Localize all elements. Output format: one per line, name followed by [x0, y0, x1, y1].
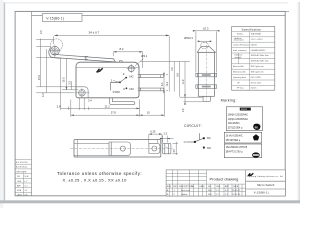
marking box 1 — [226, 107, 262, 131]
svg-text:25T125 5E4 µ: 25T125 5E4 µ — [228, 128, 243, 130]
svg-text:CIRCUIT:: CIRCUIT: — [184, 124, 202, 128]
svg-text:CHK: CHK — [216, 186, 221, 188]
top-left label box — [42, 14, 82, 22]
svg-text:16A 250VAC 25T105: 16A 250VAC 25T105 — [226, 146, 248, 149]
svg-text:KW12: KW12 — [241, 109, 248, 111]
svg-text:Mechanical life: Mechanical life — [233, 72, 246, 74]
paper bottom edge band — [0, 200, 300, 203]
actuator tick — [198, 133, 200, 139]
svg-text:2.8: 2.8 — [57, 105, 61, 109]
svg-text:Marking:: Marking: — [221, 99, 237, 103]
lever arm — [52, 54, 116, 62]
svg-text:CHK: CHK — [17, 181, 22, 183]
svg-text:16(4)A 125/250VAC: 16(4)A 125/250VAC — [228, 113, 249, 116]
svg-text:Specification: Specification — [242, 28, 262, 32]
svg-text:3.4: 3.4 — [88, 98, 92, 102]
svg-text:Insul. resistance: Insul. resistance — [233, 49, 247, 52]
svg-text:FP max: FP max — [237, 87, 244, 89]
svg-text:APP: APP — [17, 185, 22, 188]
svg-text:20.7±1.5mm: 20.7±1.5mm — [251, 82, 262, 84]
ext verticals bottom dims — [60, 59, 62, 107]
svg-text:APP: APP — [225, 185, 230, 188]
front terminal band 1 — [196, 73, 217, 77]
svg-text:Electrical life: Electrical life — [233, 65, 244, 68]
svg-text:Contact Resistance: Contact Resistance — [233, 43, 249, 46]
signoff grid verticals — [169, 170, 242, 196]
ext stub bottom tab — [184, 101, 204, 103]
center line bottom view — [70, 148, 173, 150]
svg-text:10(3)A 125/250VAC: 10(3)A 125/250VAC — [228, 118, 249, 121]
svg-text:RU: RU — [255, 126, 259, 129]
svg-text:Product drawing: Product drawing — [210, 176, 239, 181]
svg-text:ECN: ECN — [167, 186, 172, 188]
svg-text:5E4 Cycles min: 5E4 Cycles min — [251, 66, 264, 68]
right vertical dim bottom view — [173, 142, 179, 156]
marking box 3 — [224, 144, 261, 158]
svg-text:SCA: SCA — [17, 189, 22, 192]
svg-text:Ø5±0.3: Ø5±0.3 — [184, 36, 193, 40]
ext tick lever end — [112, 52, 114, 56]
marking box 2 — [224, 132, 261, 143]
paper top edge line — [4, 1, 288, 4]
terminal tab middle — [109, 142, 131, 156]
svg-text:1000V AC 50Hz 1min: 1000V AC 50Hz 1min — [251, 54, 269, 57]
svg-text:≥100MΩ 500VDC: ≥100MΩ 500VDC — [251, 49, 266, 52]
svg-text:1.3: 1.3 — [163, 132, 167, 136]
ext stub boss top — [62, 89, 78, 91]
svg-text:X. ±0.25 , X.X ±0.15 , XX ±0.1: X. ±0.25 , X.X ±0.15 , XX ±0.10 — [63, 178, 128, 183]
front bottom com tab — [203, 96, 210, 101]
roller fork — [49, 48, 61, 59]
svg-text:W.H: W.H — [208, 190, 212, 192]
NC terminal — [138, 75, 164, 78]
front lever plate — [197, 47, 215, 53]
svg-text:NC: NC — [207, 136, 211, 140]
dim 3.3 vertical — [70, 81, 72, 89]
svg-text:NO: NO — [207, 146, 211, 150]
svg-text:2.45~3.92N: 2.45~3.92N — [251, 77, 261, 79]
svg-text:21.2: 21.2 — [105, 105, 111, 109]
CQC oval logo — [252, 152, 260, 157]
title block outline — [166, 170, 285, 196]
ext line roller left — [53, 36, 55, 44]
com lead wire — [111, 82, 120, 90]
pivot contact — [194, 141, 196, 143]
dim 1.3 bottom view — [160, 136, 174, 143]
svg-text:REV DATE: REV DATE — [17, 170, 28, 173]
svg-text:strength: strength — [235, 56, 242, 59]
dim 6.3 terminal gap line — [163, 72, 165, 94]
dim line x179.5 — [179, 62, 181, 98]
svg-text:Micro Switch: Micro Switch — [257, 183, 275, 187]
svg-text:UNIT: UNIT — [17, 194, 22, 196]
svg-text:X.J: X.J — [225, 194, 228, 196]
ext stub lever plate — [141, 61, 191, 63]
svg-text:Update: Update — [181, 193, 188, 196]
blade to NC — [196, 138, 204, 141]
svg-text:12.07.26: 12.07.26 — [232, 194, 241, 196]
front body — [198, 52, 214, 96]
svg-text:V-15(B6-1): V-15(B6-1) — [46, 17, 64, 21]
svg-text:NC: NC — [129, 75, 133, 79]
svg-text:34 ± 0.7: 34 ± 0.7 — [89, 31, 100, 35]
body seam line — [76, 67, 139, 69]
dim line x174 — [173, 62, 175, 92]
left scan edge band — [0, 0, 3, 208]
svg-text:COM: COM — [113, 90, 121, 94]
bottom view inner bottom line — [74, 154, 109, 156]
NO terminal — [138, 88, 164, 91]
svg-text:-25°C~+125°C: -25°C~+125°C — [251, 39, 264, 41]
svg-text:First issue: First issue — [181, 189, 191, 192]
svg-text:1500V AC 50Hz 1min: 1500V AC 50Hz 1min — [251, 60, 269, 63]
COM bent terminal — [110, 98, 135, 105]
front roller (phantom) — [201, 42, 208, 48]
svg-text:25T105 5E4 µ: 25T105 5E4 µ — [226, 140, 241, 142]
svg-text:3.4: 3.4 — [42, 93, 45, 97]
dim roller width front — [198, 41, 212, 43]
bottom view inner top line — [74, 143, 109, 145]
row1 ticks — [60, 107, 62, 110]
svg-text:3.4mm: 3.4mm — [251, 87, 257, 89]
terminal tab right — [149, 143, 160, 153]
svg-text:Ø3.1: Ø3.1 — [141, 54, 148, 58]
paper left edge line — [4, 2, 6, 203]
svg-text:16A 250VAC: 16A 250VAC — [251, 33, 262, 36]
svg-text:1E6 Cycles min: 1E6 Cycles min — [251, 72, 264, 74]
svg-text:temperature: temperature — [234, 39, 244, 42]
dim 10.3 front — [193, 30, 220, 73]
svg-text:Zhejiang Jiulong electron co.,: Zhejiang Jiulong electron co., ltd — [247, 175, 284, 178]
dim 34 left arrow — [54, 35, 57, 37]
svg-text:C: C — [184, 140, 186, 144]
ext line hole side — [142, 52, 144, 68]
svg-text:27.8: 27.8 — [111, 111, 117, 115]
svg-text:DATE: DATE — [200, 185, 206, 188]
svg-text:X.J: X.J — [25, 186, 28, 188]
ext stub com bottom — [180, 96, 203, 98]
mounting hole top-right — [127, 64, 136, 73]
svg-text:4.3: 4.3 — [40, 30, 43, 34]
inner top line — [32, 15, 286, 17]
svg-text:15.9: 15.9 — [38, 75, 41, 80]
plunger — [120, 61, 123, 63]
dim 8.2 line — [113, 51, 143, 53]
svg-text:B 2 12.07.26: B 2 12.07.26 — [16, 162, 28, 164]
dim 34 right arrow — [166, 35, 169, 37]
bottom view outer case — [74, 140, 161, 157]
OP marker tick on lever — [84, 56, 87, 60]
svg-text:Operating force: Operating force — [233, 76, 246, 79]
svg-text:A 1 09.05.12: A 1 09.05.12 — [16, 166, 28, 169]
svg-text:Tolerance unless otherwise spe: Tolerance unless otherwise specify: — [57, 171, 142, 176]
svg-text:W.H: W.H — [25, 176, 29, 178]
svg-text:16 (4) A 250VAC: 16 (4) A 250VAC — [226, 134, 243, 137]
signoff row2 text — [167, 189, 241, 192]
left dim tower: overtravel dim — [39, 39, 41, 48]
revision column line — [31, 11, 33, 195]
company logo — [248, 173, 254, 177]
dim 10.3 vertical — [65, 59, 67, 90]
svg-text:W.H: W.H — [208, 194, 212, 196]
signoff grid horizontals — [166, 173, 246, 191]
svg-text:10.3: 10.3 — [61, 77, 65, 83]
movable blade to NC — [120, 78, 126, 83]
svg-text:16A 28VDC: 16A 28VDC — [228, 122, 240, 125]
hole boss outline — [76, 87, 88, 98]
UL recognized logo — [253, 124, 260, 130]
svg-text:13.2: 13.2 — [166, 81, 169, 86]
dim 6.35 bottom view — [149, 133, 162, 144]
bottom view left inner edge — [76, 140, 78, 157]
signoff header row text — [167, 185, 239, 188]
svg-text:6.35: 6.35 — [150, 130, 156, 134]
com wire — [186, 141, 195, 143]
signoff row3 text — [167, 193, 241, 196]
switch body outline — [76, 62, 139, 98]
OP height dim line — [40, 47, 42, 87]
lever bottom ext stub — [36, 56, 51, 58]
roller phantom (free position) — [51, 39, 63, 51]
dim line x169 — [168, 36, 170, 91]
bottom view right step — [156, 140, 158, 144]
roller (operating position) — [49, 45, 61, 57]
NC contact — [203, 137, 205, 139]
dim line x185 — [184, 62, 186, 102]
dim 2.9 arrows — [184, 94, 186, 97]
svg-text:≤30mΩ: ≤30mΩ — [251, 43, 258, 46]
svg-text:DATE: DATE — [233, 185, 239, 188]
leader dia3.1 — [135, 58, 144, 66]
svg-text:Rating: Rating — [237, 33, 242, 36]
svg-text:V-15(B6-1): V-15(B6-1) — [254, 191, 269, 195]
NC contact dot — [125, 77, 127, 79]
NO contact dot — [126, 87, 128, 89]
logo stamp on body — [96, 68, 103, 73]
mounting hole bottom-left — [74, 88, 89, 97]
dim 34±0.7 line — [54, 34, 169, 36]
front center line — [205, 41, 207, 101]
svg-text:11.9: 11.9 — [182, 79, 185, 84]
com pivot contact — [119, 81, 121, 83]
company column divider — [245, 170, 247, 196]
svg-text:3.3: 3.3 — [67, 80, 71, 84]
dim row2 line — [71, 114, 165, 116]
svg-text:NO: NO — [129, 87, 134, 91]
svg-text:mm: mm — [25, 194, 29, 196]
svg-text:10.3: 10.3 — [203, 26, 209, 30]
NO contact — [203, 147, 205, 149]
svg-text:REV: REV — [173, 186, 178, 188]
svg-text:8.2: 8.2 — [120, 47, 124, 51]
svg-text:09.05.12: 09.05.12 — [232, 190, 241, 192]
svg-text:X.J: X.J — [225, 190, 228, 192]
frame top overshoot — [285, 10, 289, 12]
terminal end piece — [163, 144, 171, 154]
drawing frame — [15, 11, 285, 195]
svg-text:5E4 PT3 175V µ: 5E4 PT3 175V µ — [226, 152, 244, 154]
dim row1 line — [61, 107, 140, 109]
front terminal band 2 — [196, 85, 217, 89]
ENEC triangle logo — [253, 134, 259, 140]
